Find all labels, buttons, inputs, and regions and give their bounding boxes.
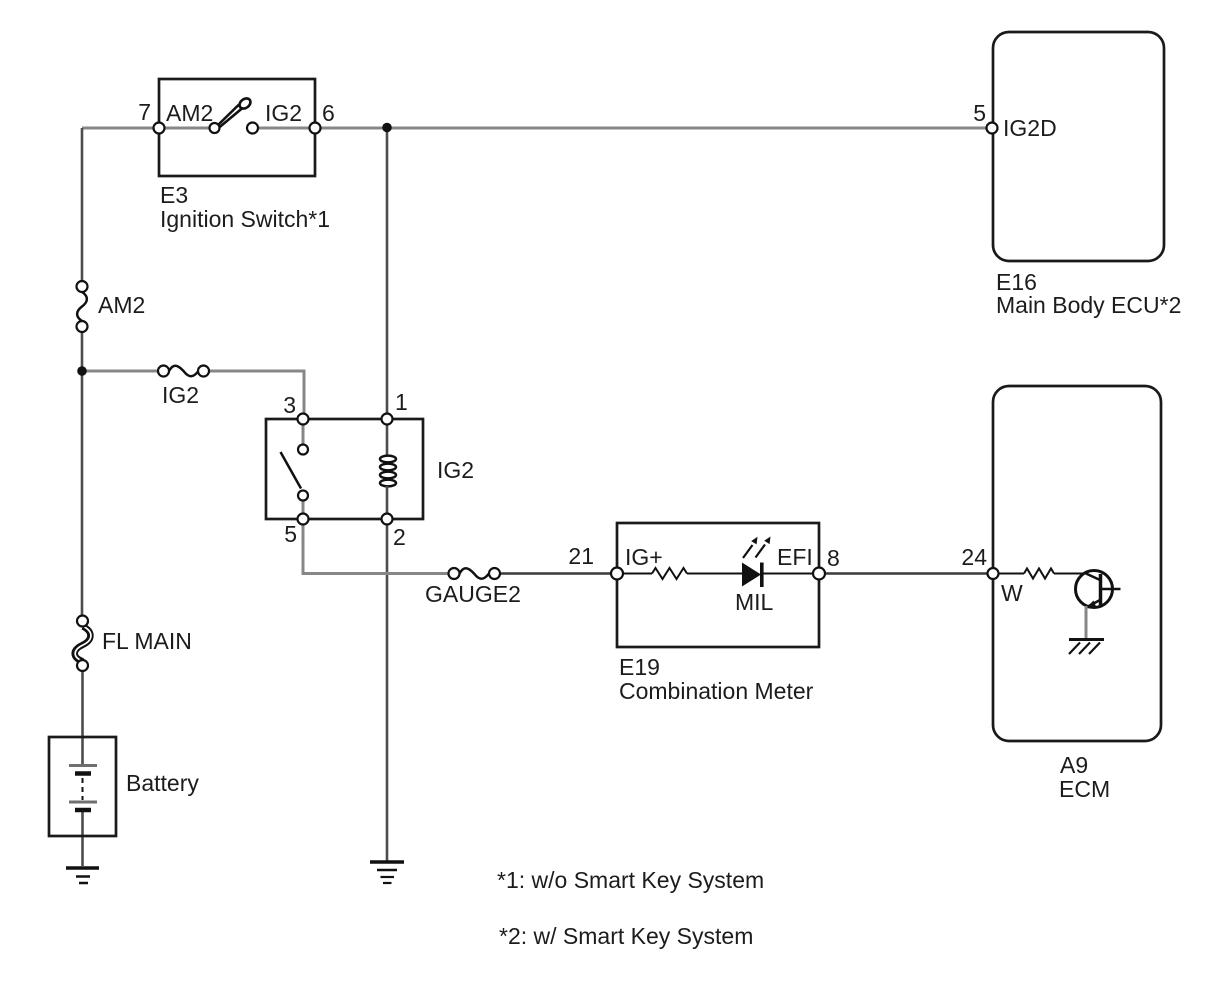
ignition switch E3 box xyxy=(159,79,315,176)
fuse GAUGE2 xyxy=(449,568,501,579)
wire: relay pin 5 drop and run to GAUGE2 fuse xyxy=(303,519,449,574)
svg-text:Ignition Switch*1: Ignition Switch*1 xyxy=(160,206,330,232)
relay coil xyxy=(380,419,396,519)
ground: battery earth ground xyxy=(66,868,99,883)
relay switch contacts xyxy=(298,445,308,501)
fuse AM2 xyxy=(77,281,88,332)
svg-text:GAUGE2: GAUGE2 xyxy=(425,581,521,607)
internal wire resistor to MIL lamp xyxy=(687,573,742,575)
battery box xyxy=(49,737,116,836)
pin 7 of E3 xyxy=(154,123,165,134)
fusible link FL MAIN xyxy=(75,616,91,672)
combination meter E19 box xyxy=(617,523,819,647)
wire: left battery vertical bus xyxy=(81,128,84,866)
svg-text:W: W xyxy=(1001,580,1023,606)
LED MIL xyxy=(742,563,819,588)
svg-text:A9: A9 xyxy=(1060,752,1088,778)
fuse IG2 xyxy=(158,366,209,377)
ground: ECM internal chassis ground xyxy=(1069,640,1104,655)
internal wire pin 21 to resistor xyxy=(623,573,652,575)
LED emission arrows xyxy=(743,537,771,559)
svg-text:21: 21 xyxy=(568,543,594,569)
svg-text:AM2: AM2 xyxy=(166,100,213,126)
pin 1 of relay xyxy=(382,414,393,425)
pin 21 of E19 xyxy=(611,568,623,580)
svg-text:IG2: IG2 xyxy=(162,382,199,408)
wire: relay internal lower contact to pin 5 xyxy=(302,496,305,520)
switch blade in E3 xyxy=(217,96,253,128)
Main Body ECU E16 box xyxy=(993,32,1164,261)
battery plates xyxy=(69,766,97,811)
wire: IG2 fuse run from junction to relay pin 3 xyxy=(82,371,304,419)
pin 5 of relay xyxy=(298,514,309,525)
ECM A9 box xyxy=(993,386,1161,741)
pin 5 of E16 xyxy=(987,123,998,134)
svg-text:E19: E19 xyxy=(619,654,660,680)
relay IG2 box xyxy=(266,419,423,519)
svg-text:5: 5 xyxy=(973,100,986,126)
pin 24 of A9 xyxy=(988,568,999,579)
svg-text:ECM: ECM xyxy=(1059,776,1110,802)
wire: combination meter pin 8 to ECM pin 24 xyxy=(819,572,993,574)
wire: battery feed from left vertical to ignition switch pin 7 xyxy=(82,127,159,130)
svg-text:6: 6 xyxy=(322,100,335,126)
svg-text:Battery: Battery xyxy=(126,770,199,796)
svg-text:2: 2 xyxy=(393,524,406,550)
svg-text:Combination Meter: Combination Meter xyxy=(619,678,814,704)
svg-text:EFI: EFI xyxy=(777,544,813,570)
wire: E3 internal IG2 contact to pin 6 xyxy=(253,127,316,130)
svg-text:*1: w/o Smart Key System: *1: w/o Smart Key System xyxy=(497,867,764,893)
svg-text:7: 7 xyxy=(138,99,151,125)
internal wire resistor to transistor xyxy=(1054,573,1087,575)
resistor in combination meter xyxy=(652,568,687,579)
wire: transistor emitter to ECM ground xyxy=(1085,606,1088,639)
relay switch blade xyxy=(281,452,302,489)
svg-text:1: 1 xyxy=(395,389,408,415)
pin 6 of E3 xyxy=(310,123,321,134)
pin 2 of relay xyxy=(382,514,393,525)
svg-text:MIL: MIL xyxy=(735,589,774,615)
svg-text:IG2: IG2 xyxy=(265,100,302,126)
pin 8 of E19 xyxy=(813,568,825,580)
svg-text:24: 24 xyxy=(961,544,987,570)
internal wire pin 24 to resistor xyxy=(999,573,1024,575)
svg-text:IG+: IG+ xyxy=(625,544,663,570)
resistor in ECM xyxy=(1024,569,1054,579)
wire: E3 internal pin 7 to AM2 contact xyxy=(159,127,215,130)
svg-text:3: 3 xyxy=(283,392,296,418)
wire: main vertical from junction through relay coil to ground xyxy=(386,127,389,861)
junction: node at ignition switch pin 6 branch xyxy=(382,123,392,133)
switch contact AM2 in E3 xyxy=(210,123,220,133)
svg-text:IG2: IG2 xyxy=(437,457,474,483)
svg-text:Main Body ECU*2: Main Body ECU*2 xyxy=(996,292,1181,318)
svg-text:E3: E3 xyxy=(160,182,188,208)
wire: relay internal pin 3 to upper contact xyxy=(302,419,305,449)
svg-text:FL MAIN: FL MAIN xyxy=(102,628,192,654)
svg-text:AM2: AM2 xyxy=(98,292,145,318)
switch contact IG2 in E3 xyxy=(247,123,258,134)
svg-text:8: 8 xyxy=(827,545,840,571)
ground: main vertical earth ground xyxy=(370,862,404,883)
svg-text:5: 5 xyxy=(284,521,297,547)
wire: GAUGE2 fuse to combination meter pin 21 xyxy=(500,572,617,574)
pin 3 of relay xyxy=(298,414,309,425)
svg-text:*2: w/ Smart Key System: *2: w/ Smart Key System xyxy=(499,923,753,949)
wire: ignition switch pin 6 to Main Body ECU pin 5 (IG2D net) xyxy=(315,127,992,130)
transistor Q (MIL driver) xyxy=(1076,571,1121,609)
svg-text:IG2D: IG2D xyxy=(1003,115,1057,141)
junction: node at AM2/IG2 branch on battery bus xyxy=(77,366,87,376)
